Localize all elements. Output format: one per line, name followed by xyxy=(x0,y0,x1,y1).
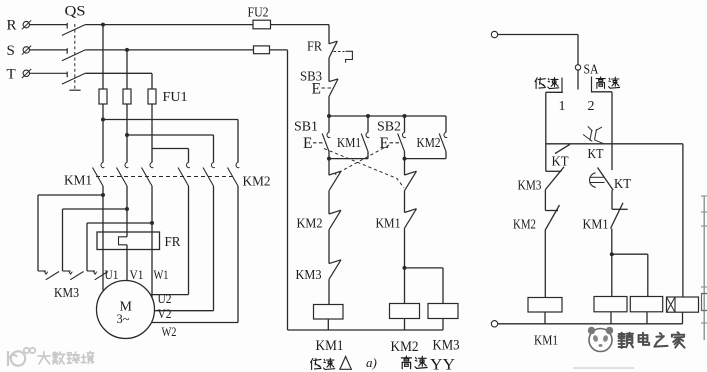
svg-text:SB2: SB2 xyxy=(377,120,401,135)
svg-text:KM1: KM1 xyxy=(376,217,401,232)
svg-text:S: S xyxy=(7,43,15,59)
svg-text:FR: FR xyxy=(307,39,322,54)
svg-text:3~: 3~ xyxy=(117,312,130,326)
svg-text:KM1: KM1 xyxy=(64,174,92,189)
svg-text:FU2: FU2 xyxy=(248,5,269,20)
svg-text:T: T xyxy=(7,66,16,82)
svg-text:KM2: KM2 xyxy=(417,136,441,151)
svg-text:KM1: KM1 xyxy=(534,334,558,349)
svg-text:a): a) xyxy=(366,355,377,370)
svg-text:SB1: SB1 xyxy=(294,120,318,135)
svg-text:V1: V1 xyxy=(130,267,144,282)
svg-text:E: E xyxy=(303,135,312,152)
svg-text:QS: QS xyxy=(65,4,86,20)
svg-text:U1: U1 xyxy=(105,267,119,282)
svg-text:YY: YY xyxy=(430,357,455,372)
svg-text:KM2: KM2 xyxy=(391,339,419,355)
svg-text:KM3: KM3 xyxy=(518,178,542,193)
svg-text:KM3: KM3 xyxy=(54,286,79,301)
svg-text:V2: V2 xyxy=(158,306,172,321)
svg-text:FU1: FU1 xyxy=(163,90,188,105)
svg-text:U2: U2 xyxy=(158,291,172,306)
svg-text:SA: SA xyxy=(584,62,599,77)
svg-text:FR: FR xyxy=(165,234,181,249)
svg-text:R: R xyxy=(7,18,17,34)
svg-text:KT: KT xyxy=(588,146,605,161)
svg-text:1: 1 xyxy=(559,99,566,114)
svg-text:KM1: KM1 xyxy=(316,338,344,354)
svg-text:KM1: KM1 xyxy=(583,217,609,232)
svg-text:KM2: KM2 xyxy=(297,217,323,232)
svg-text:E: E xyxy=(380,135,389,152)
svg-text:KM1: KM1 xyxy=(337,136,361,151)
svg-text:W1: W1 xyxy=(154,267,169,282)
svg-text:KT: KT xyxy=(552,154,570,169)
svg-text:E: E xyxy=(312,81,321,98)
svg-text:2: 2 xyxy=(588,99,595,114)
svg-text:KT: KT xyxy=(614,176,632,191)
svg-text:KM2: KM2 xyxy=(243,175,271,190)
svg-text:W2: W2 xyxy=(162,324,177,339)
svg-text:KM2: KM2 xyxy=(513,217,536,232)
svg-text:KM3: KM3 xyxy=(296,268,322,283)
svg-text:KM3: KM3 xyxy=(433,337,460,353)
